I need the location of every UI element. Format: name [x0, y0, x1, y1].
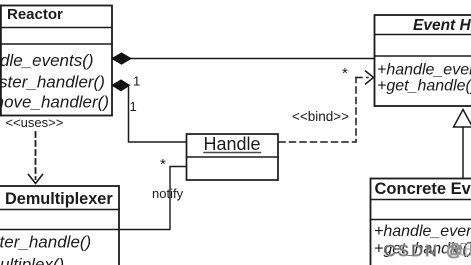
generalization Concrete Event Handler to Event Handler — [454, 110, 471, 179]
class Concrete Event Handler — [371, 179, 471, 265]
svg-text:register_handler(): register_handler() — [0, 73, 105, 92]
class Synchronous Event Demultiplexer — [0, 186, 119, 265]
svg-text:register_handle(): register_handle() — [0, 233, 91, 252]
svg-text:*: * — [342, 65, 348, 82]
class Event Handler (abstract) — [375, 15, 471, 106]
composition association Reactor to Event Handler — [112, 53, 375, 64]
class Handle — [187, 134, 279, 180]
notify association Demultiplexer to Handle — [119, 167, 187, 230]
svg-text:1: 1 — [133, 74, 140, 89]
svg-text:Event Handler: Event Handler — [413, 17, 471, 34]
svg-text:remove_handler(): remove_handler() — [0, 93, 109, 112]
svg-text:Demultiplexer: Demultiplexer — [5, 190, 113, 208]
bind dependency Handle to Event Handler — [279, 71, 374, 142]
svg-text:1: 1 — [130, 99, 137, 114]
svg-text:Reactor: Reactor — [7, 6, 63, 23]
watermark CSDN — [384, 243, 471, 260]
svg-text:demultiplex(): demultiplex() — [0, 255, 64, 265]
class Reactor — [0, 6, 112, 116]
svg-text:+handle_event(): +handle_event() — [374, 223, 471, 240]
svg-text:Concrete Event Handler: Concrete Event Handler — [375, 180, 471, 198]
svg-text:<<uses>>: <<uses>> — [6, 115, 64, 130]
svg-text:+get_handle(): +get_handle() — [377, 78, 471, 95]
svg-text:+handle_event(): +handle_event() — [377, 62, 471, 79]
uses dependency Reactor to Demultiplexer — [6, 115, 64, 184]
svg-text:notify: notify — [152, 186, 184, 201]
svg-text:CSDN @: CSDN @ — [384, 243, 465, 260]
svg-text:<<bind>>: <<bind>> — [292, 109, 349, 124]
composition association Reactor to Handle — [112, 80, 187, 142]
svg-text:Handle: Handle — [203, 134, 260, 154]
svg-text:*: * — [160, 156, 166, 173]
svg-text:handle_events(): handle_events() — [0, 51, 94, 70]
